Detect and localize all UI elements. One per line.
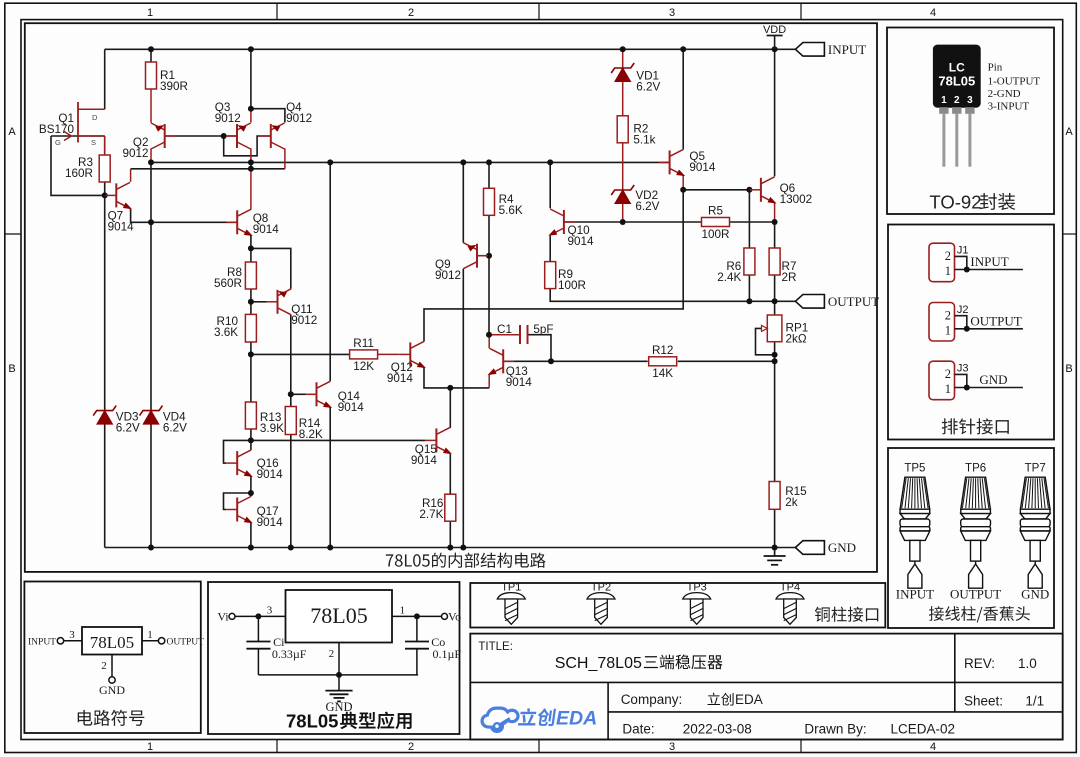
svg-text:9014: 9014 (387, 372, 414, 385)
svg-text:VDD: VDD (763, 24, 786, 36)
wire Q5 collector riser (682, 49, 684, 149)
wire R6 bottom (748, 275, 750, 301)
wire R16 to ground bus (449, 521, 451, 548)
resistor R15 (769, 482, 807, 510)
svg-text:2kΩ: 2kΩ (786, 332, 807, 345)
frame column ticks top (277, 3, 801, 19)
svg-text:3: 3 (669, 741, 675, 753)
wire R10 to R11 row (251, 353, 350, 355)
caption circuit symbol (78, 710, 145, 726)
main schematic box (25, 23, 877, 572)
svg-text:9012: 9012 (435, 269, 461, 282)
wire Q13 emitter drop (488, 374, 490, 388)
resistor R5 (702, 205, 730, 241)
node dot gnd (336, 672, 342, 678)
resistor R7 (769, 248, 796, 284)
svg-text:TP6: TP6 (965, 463, 986, 475)
wire Q14 base stub (291, 393, 306, 395)
resistor R12 (649, 344, 677, 380)
resistor R3 (65, 155, 110, 182)
svg-text:B: B (8, 363, 15, 375)
date row (622, 722, 955, 737)
wire R1 top stub (150, 49, 152, 62)
svg-text:2: 2 (408, 7, 414, 19)
GND flag (795, 540, 856, 555)
svg-text:S: S (91, 138, 96, 147)
svg-text:R11: R11 (353, 337, 374, 350)
svg-text:EDA: EDA (735, 692, 763, 707)
transistor Q8 (226, 209, 279, 239)
svg-text:2022-03-08: 2022-03-08 (683, 722, 752, 737)
wire R5 row (623, 221, 775, 223)
capacitor Ci (246, 616, 306, 675)
svg-text:GND: GND (979, 372, 1007, 387)
wire Q15 base row (251, 439, 426, 441)
svg-text:9014: 9014 (689, 161, 716, 174)
svg-text:A: A (1065, 126, 1073, 138)
svg-text:2: 2 (945, 367, 951, 381)
junction dot R8 bottom (248, 299, 254, 305)
junction dot R13 bottom (248, 437, 254, 443)
frame row labels (8, 126, 1073, 375)
app IC 78L05 rect (286, 590, 393, 643)
wire Q6 base row (683, 189, 750, 191)
wire bus link x251 (250, 162, 252, 168)
svg-text:J3: J3 (957, 363, 969, 375)
svg-text:2: 2 (408, 741, 414, 753)
transistor Q4 (260, 101, 312, 149)
wire RP1 to R15 column (774, 342, 776, 482)
svg-text:2: 2 (329, 648, 335, 660)
transistor Q13 (486, 348, 532, 389)
svg-text:C1: C1 (497, 323, 512, 336)
wire Q7 collector riser (130, 169, 132, 182)
junction dots top bus (148, 46, 778, 52)
app output wire (392, 605, 461, 624)
svg-text:9012: 9012 (286, 112, 312, 125)
frame row ticks (5, 233, 1077, 235)
svg-text:1/1: 1/1 (1025, 694, 1044, 709)
svg-text:100R: 100R (558, 279, 586, 292)
title block frame (470, 634, 1062, 740)
wire Q11 base stub row (251, 301, 267, 303)
svg-text:78L05: 78L05 (90, 633, 134, 652)
svg-text:A: A (8, 126, 16, 138)
svg-text:R12: R12 (652, 344, 673, 357)
resistor R10 (214, 314, 256, 342)
INPUT flag (795, 42, 866, 57)
svg-text:3: 3 (69, 629, 75, 641)
junction dot Q8 base (148, 219, 154, 225)
svg-text:9014: 9014 (257, 468, 284, 481)
resistor R9 (545, 262, 586, 292)
caption binding post (929, 606, 1030, 622)
junction dot R10 bottom (248, 351, 254, 357)
wire Q8 emitter to R8 (250, 235, 252, 262)
wire Q2-Q3 base row (165, 135, 237, 137)
node dot Ci (255, 613, 261, 619)
wire RP1 wiper loop (756, 328, 775, 354)
svg-text:TO-92: TO-92 (929, 192, 981, 213)
test point binding post GND (1020, 477, 1050, 588)
svg-text:OUTPUT: OUTPUT (167, 638, 205, 648)
transistor Q9 (435, 242, 488, 282)
wire Q2 collector drop (150, 148, 152, 162)
wire Q12 emitter row (424, 368, 489, 388)
earth ground symbol (764, 548, 786, 565)
zener diode VD3 (93, 406, 140, 435)
junction dot C1 right (548, 358, 554, 364)
wire Q3 emitter stub (250, 109, 252, 123)
svg-text:4: 4 (930, 7, 936, 19)
caption typical application (286, 711, 412, 732)
wire R15 bottom (774, 509, 776, 547)
test point binding post INPUT (900, 477, 930, 588)
TO-92 legs (944, 114, 970, 167)
svg-text:6.2V: 6.2V (635, 200, 659, 213)
transistor Q1 BS170 (39, 102, 105, 155)
sheet text (964, 694, 1044, 709)
svg-text:Drawn By:: Drawn By: (804, 722, 866, 737)
resistor R13 (245, 402, 284, 435)
wire Q15 collector riser (449, 388, 451, 428)
wire Q14 collector riser (329, 162, 331, 381)
wire Q12 collector loop to Q5 emitter (424, 190, 683, 342)
app pin2 wire (329, 643, 339, 675)
junction dots mirror bus (148, 159, 553, 165)
junction dots OUTPUT row (746, 298, 777, 304)
wire R1 to Q2 emitter (150, 89, 152, 123)
VDD power symbol (763, 24, 786, 49)
caption TO-92 (929, 192, 1015, 213)
svg-text:9014: 9014 (411, 454, 438, 467)
frame column labels top (147, 7, 936, 19)
svg-text:R5: R5 (708, 205, 723, 218)
wire Q3 collector drop (250, 148, 252, 162)
TO-92 pin list text (988, 62, 1041, 113)
svg-text:9014: 9014 (108, 221, 135, 234)
svg-text:560R: 560R (214, 277, 242, 290)
svg-text:Sheet:: Sheet: (964, 694, 1003, 709)
zener diode VD2 (611, 185, 659, 213)
svg-text:1: 1 (945, 382, 951, 396)
svg-text:INPUT: INPUT (970, 254, 1008, 269)
svg-text:2-GND: 2-GND (988, 88, 1021, 100)
wire Q1 source to R3 (104, 136, 106, 155)
wire R7 top (774, 222, 776, 248)
svg-text:2.7K: 2.7K (419, 508, 443, 521)
svg-text:9014: 9014 (338, 401, 365, 414)
junction dot Q3 emitter node (248, 106, 254, 112)
svg-text:1: 1 (147, 629, 153, 641)
test point screw TP2 (587, 593, 615, 625)
svg-text:2k: 2k (785, 496, 798, 509)
copper pillar box (470, 583, 885, 628)
svg-text:6.2V: 6.2V (636, 80, 660, 93)
svg-text:INPUT: INPUT (28, 638, 56, 648)
svg-text:9012: 9012 (122, 147, 148, 160)
wire collector bus 2 (131, 168, 285, 170)
rev text (964, 656, 1037, 671)
transistor Q6 (750, 177, 812, 207)
connector J2 (929, 303, 1023, 342)
svg-text:1-OUTPUT: 1-OUTPUT (988, 76, 1041, 88)
wire Q10 emitter to R9 (549, 236, 551, 262)
zener diode VD1 (611, 63, 660, 93)
svg-text:TP2: TP2 (591, 582, 611, 594)
svg-text:LC: LC (949, 61, 965, 75)
svg-text:9014: 9014 (257, 516, 284, 529)
svg-text:1: 1 (400, 605, 406, 617)
svg-text:Vo: Vo (448, 610, 461, 624)
svg-text:OUTPUT: OUTPUT (950, 587, 1001, 602)
svg-text:9012: 9012 (291, 314, 317, 327)
wire bottom ground bus (105, 547, 796, 549)
wire R4 top stub (488, 162, 490, 188)
TO-92 package box (887, 28, 1054, 215)
svg-text:BS170: BS170 (39, 123, 75, 136)
wire R8-R10-R13 column (250, 289, 252, 451)
wire Q6 collector riser (774, 49, 776, 176)
wire VD1-R2-VD2 column (622, 49, 624, 222)
transistor Q16 (226, 450, 283, 481)
svg-text:2.4K: 2.4K (717, 271, 741, 284)
svg-text:EDA: EDA (556, 708, 597, 730)
svg-text:1: 1 (147, 7, 153, 19)
node dot Co (414, 613, 420, 619)
svg-text:B: B (1065, 363, 1072, 375)
wire top supply bus (105, 48, 796, 50)
wire Q15 emitter to R16 (449, 454, 451, 494)
junction dot R12 right (772, 358, 778, 364)
junction dot RP1 wiper (772, 352, 778, 358)
svg-text:2R: 2R (782, 271, 797, 284)
svg-text:78L05: 78L05 (310, 603, 367, 628)
svg-text:Company:: Company: (621, 692, 683, 707)
wire R12 to RP1 column (678, 360, 775, 362)
wire R7 bottom (774, 275, 776, 301)
transistor Q15 (411, 427, 454, 467)
potentiometer RP1 (762, 315, 809, 345)
transistor Q12 (387, 341, 427, 385)
wire Q5 emitter drop (682, 175, 684, 189)
svg-text:SCH_78L05: SCH_78L05 (555, 655, 642, 672)
svg-text:Vi: Vi (217, 610, 229, 624)
wire Q9 emitter riser (462, 162, 464, 242)
pin header box (888, 225, 1054, 440)
resistor R1 (146, 62, 188, 93)
transistor Q14 (306, 381, 365, 414)
binding post box (888, 448, 1054, 628)
junction dot bus2 (248, 166, 254, 172)
frame column ticks bottom (277, 740, 801, 753)
svg-text:9014: 9014 (506, 376, 533, 389)
svg-text:LCEDA-02: LCEDA-02 (891, 722, 956, 737)
svg-text:TP4: TP4 (780, 582, 800, 594)
capacitor Co (405, 616, 461, 675)
wire base mirror bus (151, 161, 670, 163)
connector J3 (929, 361, 1023, 400)
wire Q5 base red stub (661, 161, 670, 163)
svg-text:9014: 9014 (568, 235, 595, 248)
svg-text:D: D (92, 113, 98, 122)
wire Q9 collector column (462, 269, 464, 548)
TO-92 body (933, 45, 980, 107)
symbol pin 1 output (142, 629, 204, 648)
company row (621, 692, 763, 707)
transistor Q7 (105, 182, 134, 233)
svg-text:0.1µF: 0.1µF (433, 647, 462, 661)
transistor Q3 (215, 101, 251, 149)
wire Q14 emitter drop (329, 407, 331, 547)
svg-text:J1: J1 (957, 245, 969, 257)
svg-text:OUTPUT: OUTPUT (970, 313, 1021, 328)
typical application box (208, 582, 460, 734)
wire R9 to OUTPUT row (550, 288, 795, 302)
wire Q10 collector riser (549, 162, 551, 208)
wire Q3 base to Q4 base U-link (224, 136, 271, 156)
svg-text:TP1: TP1 (501, 582, 521, 594)
LCEDA logo (482, 708, 597, 732)
wire R8 top to Q11 emitter loop (251, 248, 291, 288)
caption main circuit (386, 553, 546, 568)
transistor Q5 (659, 149, 716, 179)
svg-text:5pF: 5pF (533, 323, 553, 336)
svg-text:160R: 160R (65, 167, 93, 180)
svg-text:TITLE:: TITLE: (478, 641, 513, 653)
frame column labels bottom (147, 741, 936, 753)
wire Q11 collector to R14 column (290, 315, 292, 548)
wire Q16 diode link (224, 440, 251, 463)
wire Q7 emitter elbow (131, 209, 238, 222)
svg-text:13002: 13002 (780, 193, 813, 206)
svg-text:3.9K: 3.9K (260, 422, 284, 435)
wire Q10 base row (564, 221, 623, 223)
resistor R2 (617, 116, 655, 147)
junction dot R3 bottom node (102, 192, 108, 198)
svg-text:OUTPUT: OUTPUT (828, 294, 879, 309)
svg-text:78L05: 78L05 (938, 74, 975, 89)
svg-text:4: 4 (930, 741, 936, 753)
svg-text:3: 3 (669, 7, 675, 19)
svg-text:3: 3 (267, 605, 273, 617)
svg-text:6.2V: 6.2V (163, 422, 187, 435)
svg-text:INPUT: INPUT (828, 42, 866, 57)
wire R4 to C1 column (488, 216, 490, 335)
wire Q3-Q4 emitter riser (250, 49, 252, 108)
wire Q2-VD4 column (150, 162, 152, 547)
wire to Q4 emitter (251, 109, 285, 123)
circuit symbol box (24, 582, 200, 734)
svg-text:390R: 390R (160, 80, 188, 93)
wire R11 to Q12 base (378, 353, 400, 355)
svg-text:6.2V: 6.2V (116, 422, 140, 435)
capacitor C1 (497, 323, 554, 344)
test point labels TP5 TP6 TP7 (904, 463, 1045, 475)
svg-text:5.6K: 5.6K (499, 204, 523, 217)
svg-text:G: G (55, 138, 61, 147)
test point screw TP4 (776, 593, 804, 625)
svg-text:3-INPUT: 3-INPUT (988, 101, 1030, 113)
svg-text:J2: J2 (957, 304, 969, 316)
svg-text:9012: 9012 (215, 112, 241, 125)
title text (478, 641, 722, 672)
svg-text:1: 1 (147, 741, 153, 753)
svg-text:100R: 100R (702, 228, 730, 241)
caption pin header (942, 418, 1009, 434)
svg-text:1: 1 (945, 324, 951, 338)
OUTPUT flag (795, 294, 879, 309)
test point screw TP3 (683, 593, 711, 625)
svg-text:2: 2 (945, 249, 951, 263)
svg-text:2: 2 (954, 95, 960, 106)
svg-text:TP5: TP5 (904, 463, 925, 475)
transistor Q2 (122, 122, 175, 160)
svg-text:78L05: 78L05 (286, 711, 338, 732)
svg-text:3: 3 (967, 95, 973, 106)
zener diode VD4 (140, 406, 188, 435)
resistor R8 (214, 262, 256, 290)
svg-text:3.6K: 3.6K (214, 326, 238, 339)
resistor R16 (419, 494, 455, 521)
wire R3-VD3 column (104, 181, 106, 547)
svg-text:GND: GND (828, 540, 856, 555)
svg-text:14K: 14K (652, 367, 673, 380)
svg-text:1: 1 (945, 264, 951, 278)
junction dot Q2 base node (221, 133, 227, 139)
junction dot R4 bottom (486, 253, 492, 259)
svg-text:TP3: TP3 (687, 582, 707, 594)
transistor Q11 (267, 288, 318, 327)
junction dot R8 top (248, 245, 254, 251)
resistor R6 (717, 248, 755, 284)
wire gate feedback loop (51, 136, 105, 195)
junction dots ground bus (148, 545, 778, 551)
svg-text:12K: 12K (353, 360, 374, 373)
svg-text:REV:: REV: (964, 656, 995, 671)
symbol pin 2 gnd (99, 655, 125, 698)
wire Q16 emitter drop (250, 476, 252, 496)
transistor Q10 (547, 209, 594, 248)
wire Q1 gate-source row (51, 135, 105, 137)
symbol pin 3 input (28, 629, 82, 648)
app earth ground (325, 675, 352, 702)
connector J1 (929, 243, 1023, 282)
svg-text:Pin: Pin (988, 62, 1003, 74)
svg-text:2: 2 (945, 309, 951, 323)
wire Q17 diode link (224, 493, 251, 510)
wire C1 left (489, 334, 520, 336)
junction dot Q12 emitter row (447, 385, 453, 391)
wire Q8 collector riser (250, 169, 252, 210)
wire Q13 base row to R12 (503, 360, 648, 362)
svg-text:1: 1 (941, 95, 947, 106)
svg-text:9014: 9014 (253, 223, 280, 236)
resistor R14 (285, 407, 323, 442)
wire R6 column (748, 190, 750, 248)
svg-text:INPUT: INPUT (896, 587, 934, 602)
svg-text:GND: GND (99, 683, 125, 697)
svg-text:0.33µF: 0.33µF (272, 647, 307, 661)
wire RP1 top (774, 301, 776, 315)
resistor R4 (484, 188, 523, 217)
test point binding post OUTPUT (961, 477, 991, 588)
junction dot C1 left (486, 332, 492, 338)
app ground rail (258, 674, 418, 676)
junction dot Q16 emitter (248, 490, 254, 496)
wire Q13 collector stub (488, 335, 490, 349)
svg-text:8.2K: 8.2K (299, 428, 323, 441)
